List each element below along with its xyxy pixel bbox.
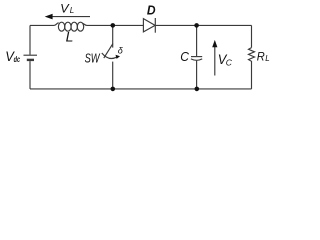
svg-text:C: C [226, 58, 233, 68]
svg-text:dc: dc [14, 54, 21, 64]
svg-text:L: L [265, 54, 269, 63]
svg-text:C: C [180, 49, 189, 64]
svg-text:L: L [66, 29, 74, 45]
svg-text:R: R [257, 49, 265, 63]
svg-text:SW: SW [85, 51, 101, 65]
svg-text:D: D [147, 3, 156, 18]
svg-text:L: L [70, 6, 74, 15]
svg-text:V: V [60, 2, 70, 16]
